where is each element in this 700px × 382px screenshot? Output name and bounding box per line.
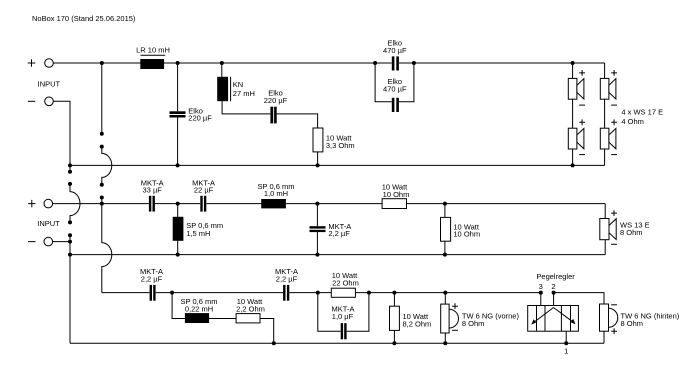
capacitor Elko 470 uF (parallel loop) <box>375 63 414 112</box>
wire right column drop <box>604 63 606 165</box>
svg-text:10 Ohm: 10 Ohm <box>383 190 410 199</box>
wire tweeter bottom rail <box>70 342 604 344</box>
svg-text:3: 3 <box>539 282 543 291</box>
svg-text:1,0 mH: 1,0 mH <box>264 189 288 198</box>
svg-text:10 Ohm: 10 Ohm <box>453 230 480 239</box>
junction dots tweeter <box>170 291 568 346</box>
svg-text:INPUT: INPUT <box>38 80 61 89</box>
svg-text:22 Ohm: 22 Ohm <box>332 278 359 287</box>
inductor LR 10 mH <box>136 46 170 69</box>
label 4 x WS 17 E / 4 Ohm <box>621 107 663 126</box>
svg-text:4 Ohm: 4 Ohm <box>621 117 644 126</box>
speaker TW 6 NG (hinten) <box>600 304 680 343</box>
capacitor MKT-A 2,2 uF (tweeter 1) <box>140 267 163 301</box>
resistor 10 Watt 3,3 Ohm <box>313 128 355 165</box>
wire left column drop <box>572 63 574 165</box>
capacitor Elko 220 uF (woofer shunt) <box>170 63 213 165</box>
svg-text:1,0 µF: 1,0 µF <box>332 312 354 321</box>
capacitor Elko 220 uF (series mid-branch) <box>264 89 318 128</box>
input terminal - (woofer) <box>28 97 54 106</box>
svg-text:1,5 mH: 1,5 mH <box>186 229 210 238</box>
svg-text:2: 2 <box>551 282 555 291</box>
svg-text:220 µF: 220 µF <box>264 96 288 105</box>
inductor SP 0,6 mm 0,22 mH with resistor branch <box>172 293 236 323</box>
svg-text:NoBox 170 (Stand 25.06.2015): NoBox 170 (Stand 25.06.2015) <box>32 14 136 23</box>
svg-text:LR 10 mH: LR 10 mH <box>136 46 170 55</box>
input terminal + (mid) <box>28 199 52 208</box>
resistor 10 Watt 10 Ohm (shunt) <box>441 204 481 255</box>
resistor 10 Watt 22 Ohm <box>331 271 359 297</box>
svg-text:470 µF: 470 µF <box>383 46 407 55</box>
svg-text:4 x WS 17 E: 4 x WS 17 E <box>621 107 663 116</box>
resistor 10 Watt 8,2 Ohm <box>390 293 432 344</box>
svg-text:KN: KN <box>233 80 243 89</box>
svg-text:1: 1 <box>564 346 568 355</box>
svg-text:Pegelregler: Pegelregler <box>536 272 575 281</box>
svg-text:27 mH: 27 mH <box>233 89 255 98</box>
wire mid top rail <box>53 203 606 205</box>
resistor 10 Watt 10 Ohm (series) <box>382 183 410 209</box>
inductor SP 0,6 mm 1,0 mH <box>258 182 295 209</box>
svg-text:2,2 µF: 2,2 µF <box>328 229 350 238</box>
wire top rail <box>53 62 604 64</box>
svg-text:220 µF: 220 µF <box>188 114 212 123</box>
speaker TW 6 NG (vorne) <box>441 293 520 344</box>
svg-text:0,22 mH: 0,22 mH <box>185 305 213 314</box>
svg-text:3,3 Ohm: 3,3 Ohm <box>326 141 355 150</box>
svg-text:2,2 Ohm: 2,2 Ohm <box>236 305 265 314</box>
junction dots mid <box>68 202 447 257</box>
speaker WS 17 E top-right <box>600 70 617 105</box>
svg-text:8 Ohm: 8 Ohm <box>621 319 644 328</box>
capacitor MKT-A 2,2 uF (mid shunt) <box>310 204 352 255</box>
resistor 10 Watt 2,2 Ohm <box>236 297 274 343</box>
svg-text:8 Ohm: 8 Ohm <box>462 319 485 328</box>
svg-text:2,2 µF: 2,2 µF <box>141 274 163 283</box>
capacitor MKT-A 2,2 uF (tweeter 2) <box>275 267 298 301</box>
wire mid minus to x70 <box>53 241 70 243</box>
svg-text:22 µF: 22 µF <box>194 186 214 195</box>
wire mid bottom rail <box>70 254 605 256</box>
speaker WS 13 E <box>600 204 650 255</box>
input terminal + (woofer) <box>28 59 54 68</box>
capacitor Elko 470 uF (in rail) <box>383 38 407 70</box>
capacitor MKT-A 33 uF <box>141 178 164 211</box>
wire plus tap (x=102 vertical) <box>100 63 112 293</box>
speaker WS 17 E top-left <box>568 70 585 105</box>
wire minus input to lower rail (x=70 vertical) <box>53 101 80 343</box>
capacitor MKT-A 22 uF <box>192 178 215 211</box>
level control Pegelregler <box>528 272 579 356</box>
svg-text:8,2 Ohm: 8,2 Ohm <box>403 320 432 329</box>
capacitor MKT-A 1,0 uF (parallel loop) <box>318 293 369 340</box>
speaker WS 17 E bottom-right <box>600 119 617 154</box>
speaker WS 17 E bottom-left <box>568 119 585 154</box>
wire terminal2 to rear tweeter <box>554 293 604 304</box>
svg-text:2,2 µF: 2,2 µF <box>276 274 298 283</box>
inductor KN 27 mH <box>217 63 270 114</box>
svg-text:INPUT: INPUT <box>37 219 60 228</box>
junction dots woofer <box>68 61 575 167</box>
svg-text:8 Ohm: 8 Ohm <box>620 228 643 237</box>
inductor SP 0,6 mm 1,5 mH <box>173 204 223 255</box>
input terminal - (mid) <box>28 237 52 246</box>
svg-text:470 µF: 470 µF <box>383 85 407 94</box>
wire woofer bottom rail <box>70 164 605 166</box>
wire tweeter feed <box>102 292 541 294</box>
svg-text:33 µF: 33 µF <box>143 186 163 195</box>
